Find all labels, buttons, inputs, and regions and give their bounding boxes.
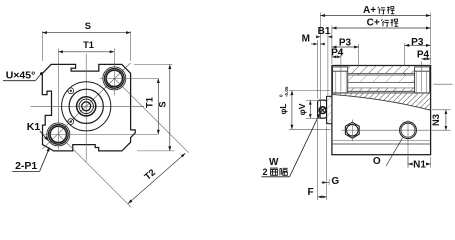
svg-text:T1: T1 (144, 97, 154, 108)
passage step left (358, 73, 360, 75)
svg-text:C+: C+ (367, 18, 380, 29)
svg-text:P4: P4 (417, 50, 430, 61)
rod thread circle (82, 102, 91, 111)
pin hole upper-left (68, 88, 74, 94)
taper break line (332, 94, 431, 110)
holes common centerline (342, 129, 430, 131)
dimension P4 right (421, 58, 430, 60)
svg-text:N3: N3 (431, 114, 441, 126)
diagonal centerline through ports (42, 63, 131, 149)
dimension P3 left (358, 44, 360, 66)
port centerline right (420, 62, 422, 92)
vertical centerline of front view (85, 54, 87, 162)
dimension T1 top (58, 51, 114, 53)
svg-text:T1: T1 (83, 40, 94, 50)
hole O circles (400, 122, 417, 139)
svg-text:W: W (269, 157, 279, 168)
port P1 bottom-left centerlines (57, 49, 59, 150)
svg-text:A+: A+ (363, 5, 376, 16)
dimension N1 (407, 157, 409, 168)
svg-text:B1: B1 (318, 26, 331, 37)
svg-text:K1: K1 (27, 121, 41, 133)
dimension phi-L (289, 90, 331, 92)
svg-text:φV: φV (297, 103, 307, 115)
dimension B1 (327, 33, 329, 95)
rod wrench flats circle W (319, 107, 326, 114)
dimension A+stroke (317, 40, 319, 99)
svg-text:N1: N1 (413, 159, 426, 170)
dimension P4 left (332, 56, 341, 58)
svg-text:G: G (331, 176, 339, 187)
lower thin hatch band (348, 88, 415, 91)
port centerline left (340, 50, 342, 92)
svg-text:M: M (302, 34, 310, 45)
dimension T2 diagonal (114, 78, 188, 152)
pilot boss phi-L (327, 96, 332, 123)
middle hatch band (348, 75, 415, 83)
svg-text:U×45°: U×45° (6, 69, 36, 81)
svg-text:S: S (85, 21, 91, 31)
port P1 bottom-left circles (47, 123, 70, 146)
body lower lines (332, 140, 431, 142)
dimension T1 right side (157, 78, 159, 134)
pin hole lower-left (68, 119, 74, 125)
dimension S top (41, 31, 43, 61)
dimension N3 (432, 109, 451, 111)
svg-text:F: F (307, 187, 313, 198)
passage lines (348, 72, 415, 74)
svg-text:φL: φL (279, 104, 288, 115)
rod circle (79, 99, 93, 113)
port P1 top-right centerlines (113, 49, 115, 96)
taper wedge hatch (332, 93, 431, 110)
svg-text:P4: P4 (331, 47, 344, 58)
svg-text:S: S (157, 101, 167, 107)
port hole right (section) (415, 66, 430, 93)
bore circle (62, 82, 111, 131)
piston rod (318, 100, 327, 118)
dimension G (328, 179, 330, 185)
hole O vertical centerline (407, 120, 409, 168)
rod outer circle (77, 97, 96, 116)
svg-text:P3: P3 (411, 37, 424, 48)
dimension phi-V (306, 99, 319, 101)
section bottom line (332, 92, 431, 94)
port P1 top-right circles (103, 67, 126, 90)
svg-text:-0.05: -0.05 (284, 86, 289, 97)
side view body outline (332, 66, 431, 155)
bolt centerlines (351, 120, 353, 142)
svg-text:0: 0 (279, 94, 284, 97)
port hole left (section) (333, 66, 348, 93)
dimension F (317, 120, 319, 200)
top wall hatch band (332, 66, 431, 74)
svg-text:2: 2 (262, 167, 267, 177)
passage step right (404, 73, 406, 75)
boss circle phi-L (69, 89, 103, 123)
ports row centerline extending right (434, 83, 453, 85)
dimension C+stroke (331, 26, 333, 65)
svg-text:O: O (373, 156, 381, 167)
dimension S right side (134, 63, 173, 65)
front view body outline (42, 64, 135, 150)
svg-text:2-P1: 2-P1 (15, 160, 37, 172)
horizontal centerline of front view (31, 105, 145, 107)
hex socket bolt (345, 122, 359, 138)
dimension P3 right (404, 43, 406, 66)
